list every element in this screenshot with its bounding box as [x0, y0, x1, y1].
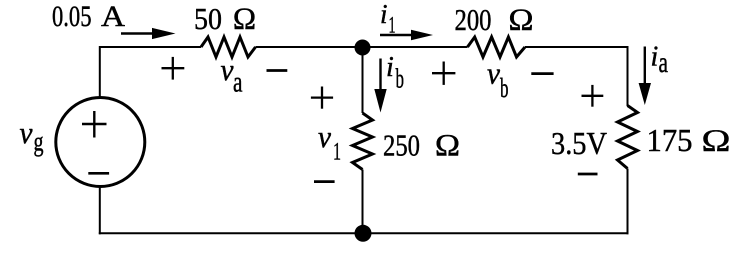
label va [221, 52, 243, 99]
node bottom junction dot [355, 225, 372, 242]
vg minus sign [88, 172, 109, 175]
svg-text:b: b [500, 73, 509, 103]
wire middle vertical lower [362, 170, 364, 234]
svg-text:Ω: Ω [508, 2, 534, 37]
wire top-right segment [525, 46, 629, 48]
label vb [487, 56, 509, 104]
node top junction dot [355, 40, 371, 56]
va plus sign [162, 57, 185, 80]
svg-text:a: a [233, 66, 243, 99]
svg-text:v: v [487, 56, 500, 91]
wire middle vertical upper [362, 47, 364, 113]
wire left vertical lower [99, 187, 101, 235]
wire right vertical lower [627, 169, 629, 235]
svg-text:v: v [20, 115, 33, 150]
svg-text:a: a [659, 46, 669, 79]
current 0.05A arrow [121, 28, 176, 39]
wire right vertical upper [627, 46, 629, 106]
svg-text:1: 1 [333, 139, 341, 166]
svg-text:i: i [380, 0, 388, 29]
resistor 200 ohm [468, 37, 526, 57]
vb plus sign [432, 62, 455, 85]
svg-text:200: 200 [455, 2, 492, 37]
svg-text:Ω: Ω [701, 123, 731, 158]
svg-text:175: 175 [647, 123, 693, 158]
svg-text:3.5V: 3.5V [551, 125, 607, 161]
wire bottom horizontal [99, 232, 629, 234]
svg-text:A: A [101, 0, 125, 33]
svg-text:Ω: Ω [435, 127, 461, 162]
label vg [20, 115, 44, 156]
svg-text:0.05: 0.05 [52, 0, 92, 33]
svg-text:i: i [651, 41, 659, 72]
label ib [386, 52, 404, 94]
current ia arrow [639, 47, 651, 106]
current ib arrow [374, 59, 386, 113]
label v1 [318, 119, 341, 166]
v1 plus sign [311, 87, 333, 109]
wire top-middle segment [256, 46, 468, 48]
svg-text:250: 250 [383, 127, 420, 162]
svg-text:b: b [396, 64, 405, 94]
svg-text:Ω: Ω [233, 1, 257, 36]
va minus sign [267, 69, 288, 72]
vb minus sign [531, 72, 553, 75]
3.5V plus sign [582, 85, 604, 107]
resistor 175 ohm [618, 106, 638, 169]
label i1 [380, 0, 396, 38]
svg-text:g: g [34, 127, 44, 157]
v1 minus sign [314, 180, 335, 183]
voltage source vg circle [56, 98, 145, 187]
svg-text:v: v [221, 52, 234, 87]
resistor 50 ohm [201, 37, 256, 57]
resistor 250 ohm [353, 113, 373, 170]
wire top-left horizontal segment [99, 46, 201, 48]
svg-text:v: v [318, 119, 331, 154]
svg-text:50: 50 [194, 1, 222, 36]
current i1 arrow [380, 30, 433, 40]
vg plus sign [82, 111, 107, 138]
label ia [651, 41, 669, 79]
svg-text:i: i [386, 52, 394, 83]
wire left vertical upper [99, 46, 101, 98]
3.5V minus sign [578, 173, 598, 176]
